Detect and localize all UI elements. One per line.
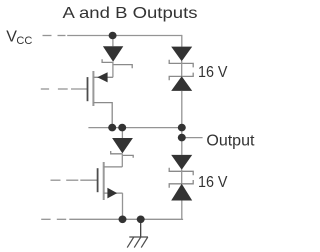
drain stub Q2 [104,166,123,168]
wire middle rail (node A/B outputs internal) [88,127,181,129]
junction dot middle rail / right rail [178,124,186,132]
transistor Q1 p-channel MOSFET [41,71,113,128]
svg-text:CC: CC [16,35,32,47]
wire link between Z1 and Z2 [181,61,183,76]
diode D2 (middle clamp diode) [111,128,134,167]
svg-text:16 V: 16 V [198,64,228,81]
junction dot output stub [178,134,186,142]
zener Z2 (16 V pair top, lower half) [169,73,193,91]
body arrow Q1 [97,72,107,82]
wire right rail (Z4 down to bottom rail corner) [181,201,183,220]
transistor Q2 n-channel MOSFET [51,162,123,219]
ground [127,219,148,247]
svg-text:A and B Outputs: A and B Outputs [63,5,198,22]
svg-text:16 V: 16 V [198,174,228,191]
junction dot Q1 drain / middle rail [108,124,116,132]
junction dot VCC / diode D1 [109,32,117,40]
wire bottom rail (dashed continuation + solid to right corner) [41,218,182,221]
gate plate Q2 [97,168,99,192]
wire gate dashed lead Q1 [41,88,88,90]
gate plate Q1 [87,77,89,101]
wire right rail (Z2 down through mid junctions to Z3) [181,91,183,155]
channel plate Q1 [92,71,94,106]
node VCC label [6,29,32,48]
wire VCC rail (dashed continuation + solid to right corner) [43,35,182,37]
zener Z3 (16 V pair bottom, upper half) [169,155,193,175]
junction dot bottom rail / ground [137,216,145,224]
zener Z4 (16 V pair bottom, lower half) [169,180,193,201]
channel plate Q2 [103,162,105,200]
source stub Q1 [93,76,113,78]
wire Q2 source down to bottom rail [122,193,124,219]
wire right rail vertical (VCC corner down to zener Z1) [181,35,183,47]
body arrow Q2 [107,188,117,199]
junction dot Q2 source / bottom rail [119,216,127,224]
source stub Q2 [104,192,123,194]
svg-text:Output: Output [206,133,255,150]
diode D1 (VCC clamp diode) [102,36,132,78]
drain stub Q1 [93,103,112,128]
wire output stub [182,137,203,139]
wire gate dashed lead Q2 [51,179,98,181]
wire link between Z3 and Z4 [181,169,183,184]
junction dot middle rail / diode D2 [118,124,126,132]
zener Z1 (16 V pair top, upper half) [169,47,193,68]
